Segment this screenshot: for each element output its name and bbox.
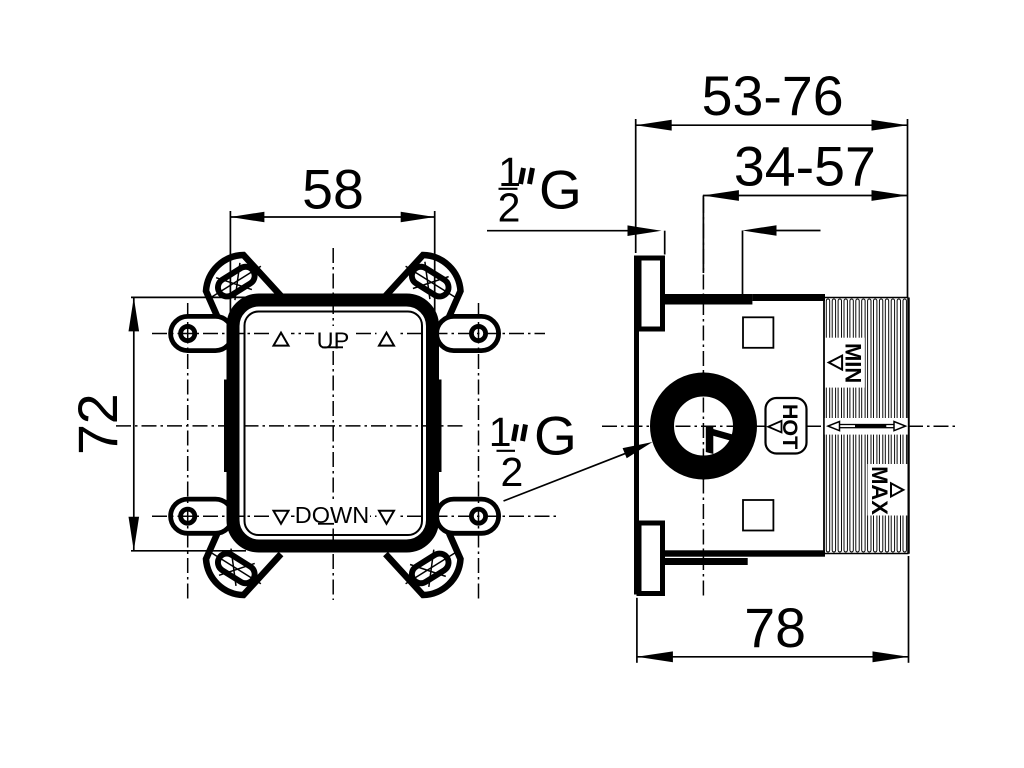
- svg-text:UP: UP: [317, 327, 350, 353]
- svg-text:2: 2: [498, 184, 521, 230]
- svg-text:G: G: [539, 159, 582, 221]
- svg-text:MIN: MIN: [841, 343, 866, 383]
- svg-text:53-76: 53-76: [702, 65, 844, 127]
- svg-text:MAX: MAX: [867, 466, 892, 515]
- svg-text:G: G: [534, 405, 577, 467]
- svg-text:72: 72: [67, 393, 129, 455]
- svg-text:2: 2: [500, 449, 523, 495]
- svg-text:34-57: 34-57: [734, 135, 876, 197]
- svg-text:58: 58: [302, 159, 364, 221]
- svg-text:78: 78: [744, 597, 806, 659]
